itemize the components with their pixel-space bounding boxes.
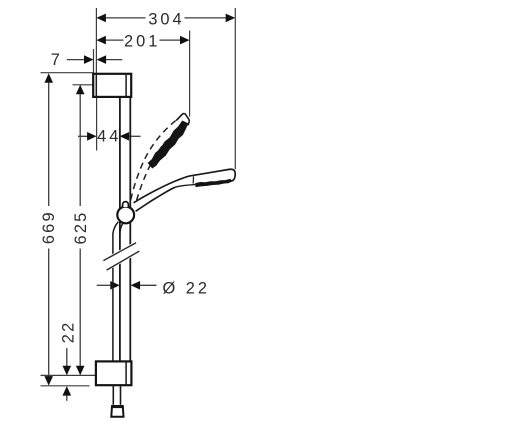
hand shower handle top edge xyxy=(134,176,191,203)
dim 669 arrow top xyxy=(44,73,53,83)
dim 625 arrow bottom xyxy=(76,366,85,376)
extension line vertical x=235.3 (304 right, to shower tip) xyxy=(234,8,236,169)
hose below bracket left line xyxy=(112,385,114,405)
svg-text:Ø 22: Ø 22 xyxy=(163,279,211,297)
dim 201 arrow right xyxy=(180,36,190,45)
svg-text:625: 625 xyxy=(72,211,90,245)
top wall bracket xyxy=(93,74,131,97)
dashed position head cap outline xyxy=(176,114,189,126)
dim 7 right arrow (points left) xyxy=(106,59,122,61)
break line lower xyxy=(107,251,140,270)
extension line vertical x=189.6 (201 right, to dashed head tip) xyxy=(189,31,191,117)
hose nut thick top edge xyxy=(112,405,124,408)
dim 201 arrow left xyxy=(96,36,106,45)
hose left edge (upper, from slider) xyxy=(113,222,118,361)
top bracket inner right line xyxy=(125,74,127,97)
rail right line xyxy=(129,97,131,361)
hand shower handle/head tick xyxy=(192,176,194,183)
top bracket inner left line xyxy=(95,74,97,97)
dim 625 arrow top xyxy=(76,85,85,95)
hose conical nut xyxy=(111,406,123,417)
extension line vertical x=96.6 (44 left ref below bracket) xyxy=(96,98,98,151)
dim 201 line xyxy=(106,39,124,41)
dim 304 arrow right xyxy=(226,14,236,23)
extension line horizontal y=385.8 (669/22 bottom) xyxy=(41,385,90,387)
dim 44 right arrow (points left) xyxy=(129,135,141,137)
break line upper xyxy=(103,243,136,261)
dim diameter 22 left arrow (points right) xyxy=(97,284,111,286)
svg-text:201: 201 xyxy=(124,33,160,51)
svg-text:7: 7 xyxy=(51,51,63,69)
extension line vertical x=96.4 (ref for 304/201/7) xyxy=(95,8,97,74)
svg-text:22: 22 xyxy=(60,321,78,344)
break symbol white gap xyxy=(103,241,141,272)
slider circle xyxy=(117,207,134,224)
dim diameter 22 right arrow (points left) xyxy=(140,284,157,286)
hand shower head top edge and right tip xyxy=(191,169,236,181)
hose below bracket right line xyxy=(120,385,122,405)
dashed position spray face (dark blob) xyxy=(148,121,187,168)
hose right edge (upper, merges with rail) xyxy=(120,223,123,233)
dim 22 lower arrow (points up) xyxy=(66,395,68,401)
svg-text:44: 44 xyxy=(97,128,121,146)
slider knob xyxy=(123,202,129,207)
extension line vertical x=93.5 (bracket left edge, 7 dim) xyxy=(93,49,95,74)
dim 304 line xyxy=(106,17,146,19)
hand shower handle bottom edge xyxy=(136,187,175,211)
bottom bracket inner right line xyxy=(125,362,127,385)
dim 625 line xyxy=(79,94,81,206)
hand shower head underside thin line xyxy=(175,185,196,188)
extension line horizontal y=84.8 (625 top) xyxy=(73,84,94,86)
extension line horizontal y=375.4 (625/22 bottom) xyxy=(41,374,96,376)
dim 669 line xyxy=(48,82,50,206)
dashed handle left curve (raised position) xyxy=(131,120,176,199)
dashed handle right curve (raised position) xyxy=(137,143,165,200)
extension line horizontal y=72.7 (669 top) xyxy=(41,72,94,74)
dim 22 upper arrow (points down) xyxy=(66,348,68,366)
dim 304 arrow left xyxy=(96,14,106,23)
bottom wall bracket xyxy=(96,361,131,385)
svg-text:669: 669 xyxy=(40,210,58,244)
rail left line xyxy=(119,97,121,361)
dim 44 left arrow (points right) xyxy=(78,135,88,137)
dim 669 arrow bottom xyxy=(44,376,53,386)
svg-text:304: 304 xyxy=(148,11,184,29)
hand shower spray face (dark band) xyxy=(196,179,232,187)
dim 7 left arrow (points right) xyxy=(67,59,85,61)
